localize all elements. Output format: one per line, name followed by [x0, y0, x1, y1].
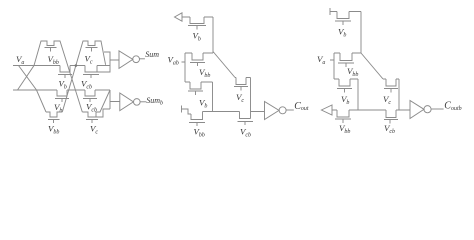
- wire top chain: [182, 17, 213, 53]
- label Vbb of M2: [199, 67, 210, 79]
- label Vc of T4: [90, 124, 98, 136]
- arrow terminal A1 (top left of middle block): [175, 13, 183, 21]
- transistor T2 (Vc, large trapezoid on rail1): [62, 41, 105, 112]
- label Vb of S1: [59, 79, 67, 91]
- label Vcb of M6: [240, 127, 251, 139]
- svg-text:Vb: Vb: [59, 79, 67, 91]
- transistor S3 (Vb, small below rail2): [55, 90, 69, 102]
- transistor M6 (Vcb staple on bottom wire): [238, 112, 254, 126]
- svg-text:Vcb: Vcb: [81, 79, 92, 91]
- transistor M2 (Vbb staple): [190, 53, 205, 66]
- label Vb of R1: [338, 27, 346, 39]
- label Vbb of T3: [48, 124, 59, 136]
- label Vbb of R5: [339, 123, 350, 135]
- transistor R1 (Vb, top staple): [335, 12, 351, 26]
- transistor T4 (Vc, large inverted trapezoid below rail2): [82, 90, 110, 123]
- wire Vc level: [235, 78, 251, 119]
- svg-text:Vbb: Vbb: [194, 127, 205, 139]
- arrow terminal A2 (bottom left of right block): [321, 105, 332, 115]
- node Vab input label: [168, 55, 179, 67]
- node Cout output label: [294, 101, 309, 112]
- terminal tick top left of right block: [329, 8, 331, 15]
- wire bottom chain left: [182, 109, 192, 114]
- wire T4 notch to inverter2 input: [96, 109, 110, 117]
- svg-text:Coutb: Coutb: [444, 101, 461, 112]
- label Vb of M1: [193, 30, 201, 42]
- label Vbb of T1: [48, 54, 59, 66]
- op-amp U2 inverter (Sumb): [120, 93, 134, 111]
- wire diagonal right block: [361, 53, 383, 79]
- svg-text:Vb: Vb: [338, 27, 346, 39]
- svg-text:Vb: Vb: [199, 98, 207, 110]
- svg-text:Va: Va: [317, 54, 325, 66]
- node Sumb output label: [146, 96, 163, 107]
- transistor M4 (Vb staple): [188, 82, 203, 95]
- wire Vb lower level: [185, 82, 213, 112]
- wire inverter1 input node: [97, 52, 119, 72]
- svg-text:Sumb: Sumb: [146, 96, 163, 107]
- svg-text:Vbb: Vbb: [199, 67, 210, 79]
- junction dot on rail1: [75, 64, 78, 67]
- svg-text:Vbb: Vbb: [347, 66, 358, 78]
- wire inverter3 output: [286, 109, 294, 111]
- svg-text:Vc: Vc: [85, 53, 93, 65]
- wire inverter1 output: [140, 58, 145, 60]
- transistor R4 (Vb staple): [337, 79, 352, 93]
- svg-text:Vcb: Vcb: [384, 123, 395, 135]
- svg-text:Vb: Vb: [341, 94, 349, 106]
- transistor T1 (Vbb, large trapezoid on rail1): [18, 41, 83, 112]
- transistor S4 (Vcb, small below rail2): [83, 90, 97, 102]
- svg-text:Va: Va: [16, 54, 24, 66]
- label Vbb of M5: [194, 127, 205, 139]
- wire Vb lower level right block: [334, 79, 358, 110]
- svg-text:Vb: Vb: [193, 30, 201, 42]
- svg-text:Sum: Sum: [145, 50, 159, 59]
- node Va input label: [16, 54, 24, 66]
- label Vb of M4: [199, 98, 207, 110]
- wire Vc level right block: [383, 79, 399, 110]
- transistor T3 (Vbb, large inverted trapezoid below rail2): [46, 112, 62, 123]
- wire Vab lead: [182, 53, 186, 82]
- transistor R6 (Vcb staple): [384, 110, 398, 124]
- label Vcb of S4: [86, 102, 97, 114]
- transistor R3 (Vc staple): [384, 79, 398, 93]
- wire inverter2 input node: [110, 90, 120, 109]
- wire second level: [185, 52, 213, 54]
- wire second level right block: [334, 52, 361, 54]
- wire inverter2 output: [140, 101, 146, 103]
- label Vcb of R6: [384, 123, 395, 135]
- node Sum output label: [145, 50, 159, 59]
- label Vb of R4: [341, 94, 349, 106]
- label Vcb of S2: [81, 79, 92, 91]
- label Vc of M3: [236, 92, 244, 104]
- node Va input label (right block): [317, 54, 325, 66]
- transistor S1 (Vb, small below rail1): [58, 66, 72, 79]
- transistor M3 (Vc staple): [234, 78, 248, 91]
- svg-text:Vc: Vc: [236, 92, 244, 104]
- wire Va lead: [330, 53, 334, 79]
- op-amp U4 inverter (Coutb): [410, 101, 424, 119]
- wire rail1 (Va line): [13, 65, 110, 67]
- wire rail2: [13, 89, 110, 91]
- transistor R5 (Vbb staple): [335, 110, 351, 123]
- wire bottom chain right block: [332, 109, 410, 111]
- op-amp U3 inverter (Cout): [265, 102, 280, 120]
- wire crossing diagonal D1 (rail1 to T3 left leg): [19, 66, 47, 113]
- svg-text:Vc: Vc: [90, 124, 98, 136]
- svg-text:Vbb: Vbb: [339, 123, 350, 135]
- svg-text:Vc: Vc: [383, 94, 391, 106]
- svg-text:Cout: Cout: [294, 101, 309, 112]
- svg-text:Vbb: Vbb: [48, 124, 59, 136]
- node Coutb output label: [444, 101, 461, 112]
- transistor M5 (Vbb staple on bottom wire): [189, 112, 205, 127]
- svg-text:Vbb: Vbb: [48, 54, 59, 66]
- wire bottom chain (inverter input node): [203, 111, 265, 113]
- svg-text:Vab: Vab: [168, 55, 179, 67]
- label Vb of S3: [54, 102, 62, 114]
- transistor M1 (Vb, top staple): [188, 17, 206, 30]
- label Vc of R3: [383, 94, 391, 106]
- svg-text:Vcb: Vcb: [240, 127, 251, 139]
- wire top chain right block: [330, 12, 361, 54]
- transistor S2 (Vcb, small below rail1): [83, 66, 99, 79]
- label Vc of T2: [85, 53, 93, 65]
- op-amp U1 inverter (Sum): [119, 51, 133, 69]
- terminal tick bottom left of middle block: [181, 106, 183, 113]
- transistor R2 (Vbb staple): [338, 53, 354, 67]
- wire diagonal to Vc level: [213, 52, 235, 78]
- label Vbb of R2: [347, 66, 358, 78]
- wire inverter4 output: [431, 108, 444, 110]
